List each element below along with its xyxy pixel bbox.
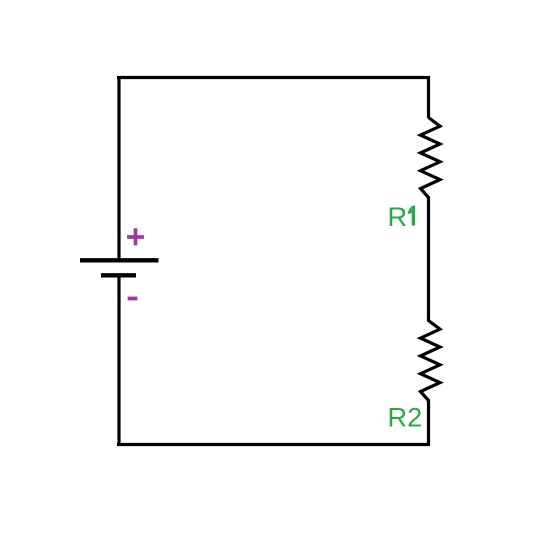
wire right upper <box>427 76 430 118</box>
resistor R1 <box>421 118 441 198</box>
wire right lower <box>427 400 430 447</box>
battery B1 negative plate <box>101 273 136 277</box>
wire bottom <box>117 443 430 446</box>
svg-text:R: R <box>388 201 408 232</box>
svg-text:R2: R2 <box>388 401 423 432</box>
wire top <box>117 76 430 79</box>
label + (battery positive) <box>127 228 144 245</box>
label - (battery negative) <box>128 297 138 301</box>
battery B1 positive plate <box>80 258 159 262</box>
resistor R2 <box>421 321 441 401</box>
wire left lower <box>117 277 120 446</box>
wire right middle <box>427 197 430 322</box>
wire left upper <box>117 76 120 259</box>
